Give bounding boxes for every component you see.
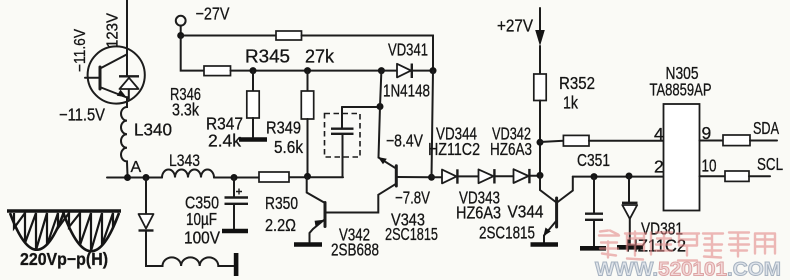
junction VD341 anode (378, 67, 385, 74)
transistor V-out circle (H output with damper) (88, 46, 145, 103)
svg-text:10: 10 (702, 156, 717, 176)
svg-text:HZ11C2: HZ11C2 (428, 139, 480, 159)
svg-text:L343: L343 (169, 151, 200, 170)
V343 collector diagonal (327, 184, 397, 213)
damper diode inside circle (128, 89, 130, 99)
svg-text:−11.6V: −11.6V (72, 29, 89, 72)
transistor V342 (307, 177, 325, 203)
emitter diagonal with arrow (101, 88, 127, 98)
svg-text:TA8859AP: TA8859AP (650, 80, 712, 100)
svg-text:220Vp−p(H): 220Vp−p(H) (20, 249, 108, 269)
svg-text:2SC1815: 2SC1815 (385, 224, 438, 244)
svg-text:−7.8V: −7.8V (395, 188, 430, 208)
+27V supply arrow (539, 8, 541, 30)
svg-text:−11.5V: −11.5V (59, 105, 105, 125)
svg-text:C351: C351 (577, 150, 610, 170)
transistor V343 (395, 166, 398, 186)
wire VD341 node down (380, 71, 381, 107)
diode VD342 (514, 169, 529, 183)
resonator top stub (342, 106, 380, 108)
ceramic resonator dashed box (325, 114, 361, 158)
svg-text:2.4k: 2.4k (208, 131, 241, 151)
svg-text:A: A (131, 159, 142, 176)
junction R349/R350/V342 (304, 173, 311, 180)
ground (C351) (580, 246, 606, 251)
svg-text:R345: R345 (245, 47, 290, 67)
wire pin 10 SCL (700, 175, 726, 177)
svg-text:L340: L340 (134, 120, 172, 140)
IC N305 TA8859AP (664, 104, 700, 211)
resistor R350 (259, 172, 289, 182)
junction diode chain left (428, 174, 435, 181)
transistor V344 (540, 175, 556, 202)
svg-text:SCL: SCL (757, 154, 783, 174)
svg-text:R349: R349 (266, 118, 301, 138)
wire top rail right (302, 36, 434, 70)
svg-text:R350: R350 (265, 193, 298, 213)
svg-text:V344: V344 (508, 202, 544, 222)
junction C351 (591, 173, 598, 180)
svg-text:−8.4V: −8.4V (386, 131, 423, 151)
junction -8.4V node (377, 103, 384, 110)
base stub (85, 77, 99, 79)
svg-text:R352: R352 (559, 73, 595, 93)
wire pin 9 SDA (700, 140, 724, 142)
wire top-right node down to diode chain (432, 71, 434, 178)
resistor R347 (252, 71, 254, 91)
wire -8.4V node to V343 emitter (379, 107, 381, 158)
junction pin4 line (537, 139, 544, 146)
ground (C350) (222, 229, 248, 234)
wire pin 4 (540, 141, 563, 142)
resistor R346 (204, 66, 231, 76)
wire collector from top 123V (126, 0, 128, 76)
zener diode VD381 (628, 176, 630, 202)
wire main rail to R350 (289, 176, 343, 178)
diode VD343 (479, 169, 494, 183)
svg-text:2.2Ω: 2.2Ω (265, 215, 296, 235)
capacitor C351 (593, 177, 595, 213)
V344 collector diagonal (557, 177, 573, 203)
junction R347 (250, 67, 257, 74)
ground (V342) (294, 242, 322, 247)
terminal -27V (176, 16, 186, 26)
wire -27V drop (181, 36, 204, 71)
diode at node A (to flyback coil) (145, 178, 147, 215)
resistor R349 (307, 71, 309, 91)
svg-text:100V: 100V (184, 228, 220, 248)
svg-text:2SC1815: 2SC1815 (479, 223, 535, 243)
transistor base bar (99, 67, 102, 89)
svg-text:WWW.520101.COM: WWW.520101.COM (595, 259, 781, 280)
svg-text:2: 2 (654, 157, 664, 177)
svg-text:5.6k: 5.6k (274, 137, 303, 157)
V343 emitter diagonal (arrow up-left) (379, 158, 396, 169)
wire L343 to R350 (214, 177, 259, 179)
V344 emitter diagonal with arrow (544, 221, 557, 243)
svg-text:123V: 123V (105, 13, 122, 48)
junction diode branch (143, 174, 150, 181)
inductor L340 (squiggle) (121, 104, 128, 175)
diode VD344 (432, 176, 443, 178)
svg-text:HZ6A3: HZ6A3 (490, 139, 532, 159)
svg-text:27k: 27k (305, 47, 335, 67)
junction R349 (304, 67, 311, 74)
collector diagonal (101, 55, 127, 69)
wire node A horizontal (107, 177, 162, 179)
ground (VD381) (617, 245, 643, 250)
resonator cap element (341, 107, 343, 128)
waveform 220Vp-p (H) (7, 211, 121, 251)
svg-text:1k: 1k (563, 93, 578, 113)
inductor bottom coil (146, 231, 234, 266)
node A junction (124, 174, 131, 181)
svg-text:+27V: +27V (497, 16, 533, 36)
svg-text:4: 4 (654, 124, 664, 144)
capacitor C350 (233, 178, 235, 197)
wire C351 rail to pin 2 (573, 176, 664, 178)
junction C350 (231, 174, 238, 181)
svg-text:−27V: −27V (196, 4, 230, 24)
watermark line 1 (CJK) (599, 231, 775, 261)
diode VD341 (381, 70, 397, 72)
inductor L343 (162, 170, 214, 178)
C350 polarity + (236, 189, 242, 195)
junction top-right node (430, 67, 437, 74)
svg-text:VD341: VD341 (388, 40, 428, 60)
emitter wire out bottom (126, 97, 128, 104)
junction -27V (177, 32, 184, 39)
resistor R352 (534, 74, 546, 101)
svg-text:10µF: 10µF (186, 209, 217, 229)
junction VD381 (626, 173, 633, 180)
wire second rail (231, 70, 382, 72)
V342 emitter diagonal with arrow toward bar (310, 220, 325, 243)
svg-text:2SB688: 2SB688 (331, 240, 379, 260)
junction VD342/V344 (537, 172, 544, 179)
resistor R345 (276, 31, 302, 40)
svg-text:SDA: SDA (753, 118, 779, 138)
ground (V344) (531, 242, 559, 247)
svg-text:1N4148: 1N4148 (383, 81, 430, 101)
terminal bar (vertical) (234, 253, 239, 276)
V343 base wire to diode chain (397, 176, 431, 178)
svg-text:3.3k: 3.3k (172, 100, 199, 120)
svg-text:HZ6A3: HZ6A3 (456, 203, 501, 223)
ground (R347) (239, 137, 267, 142)
wire top rail (181, 35, 276, 37)
